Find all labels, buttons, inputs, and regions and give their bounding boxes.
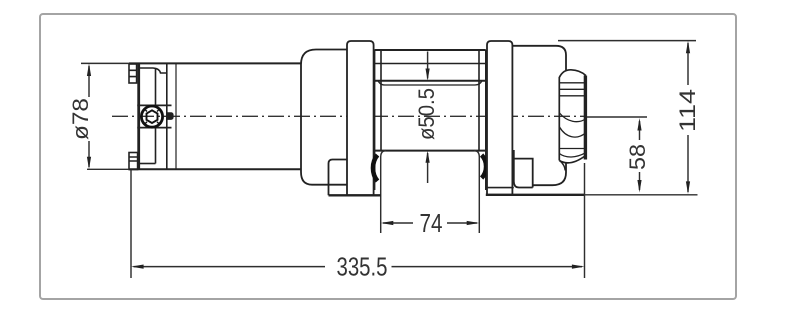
drum barrel bottom <box>375 150 486 152</box>
dim 58 <box>587 117 647 190</box>
clutch knob <box>559 70 586 171</box>
dim 114 <box>558 41 696 192</box>
right tie bar <box>487 41 512 195</box>
svg-text:74: 74 <box>420 210 443 238</box>
gearbox housing <box>512 46 566 188</box>
motor end cap <box>139 63 176 169</box>
svg-text:335.5: 335.5 <box>337 253 388 281</box>
dim phi78 <box>81 63 129 169</box>
dark crescent right flange <box>482 155 487 178</box>
motor cylinder <box>129 63 301 169</box>
svg-text:ø50.5: ø50.5 <box>414 88 439 140</box>
border frame <box>40 14 736 299</box>
barrel-flange fillets + 74 extension lines <box>381 151 386 233</box>
bolt boss circles <box>141 106 162 127</box>
dim 335.5 <box>131 163 585 278</box>
right tie bar foot line <box>486 187 514 189</box>
dim 74 <box>383 222 477 224</box>
drum barrel top <box>375 80 486 82</box>
dark crescent left flange <box>373 155 378 181</box>
svg-text:58: 58 <box>625 144 650 170</box>
dim phi50.5 <box>427 52 429 184</box>
motor top lug <box>129 64 137 83</box>
base line feet <box>329 194 382 196</box>
centerline <box>112 115 586 117</box>
drum flange left <box>375 50 381 190</box>
drum flange right <box>479 50 486 190</box>
svg-text:ø78: ø78 <box>68 98 93 140</box>
left tie bar <box>347 41 374 195</box>
tie rod top <box>375 49 486 51</box>
bolt boss square <box>137 105 171 127</box>
svg-text:114: 114 <box>675 89 700 132</box>
grease nipple nub <box>168 113 174 120</box>
clutch housing (left block) <box>301 50 347 196</box>
base extension line <box>585 194 698 196</box>
motor bottom lug <box>129 153 138 170</box>
